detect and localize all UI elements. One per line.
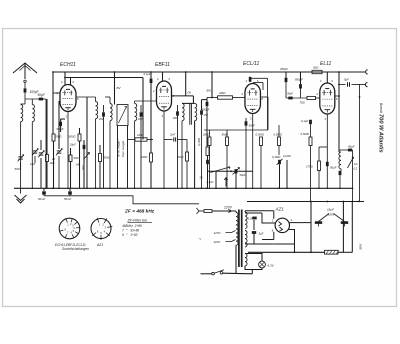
svg-text:0,5MΩ: 0,5MΩ	[274, 133, 283, 137]
svg-text:5kΩ: 5kΩ	[178, 155, 184, 159]
svg-text:450pF: 450pF	[280, 67, 288, 71]
svg-text:3MΩ: 3MΩ	[222, 133, 229, 137]
wire bias line	[245, 243, 274, 245]
wire B plus line	[247, 201, 364, 203]
svg-text:16µF: 16µF	[327, 208, 334, 212]
capacitor blob HT	[252, 217, 256, 220]
svg-text:50µF: 50µF	[330, 166, 337, 170]
wire B minus line	[44, 196, 199, 204]
capacitor 450pF	[285, 72, 287, 78]
svg-text:5µF: 5µF	[259, 232, 264, 236]
svg-text:150: 150	[204, 113, 209, 117]
antenna insulator	[24, 80, 26, 82]
svg-text:m. m. Regel –: m. m. Regel –	[117, 138, 121, 157]
svg-text:ECH11: ECH11	[60, 62, 76, 68]
coil L1 antenna	[21, 105, 23, 122]
capacitor 0,1uF AVC	[150, 72, 152, 79]
svg-text:7 ″ 93+86: 7 ″ 93+86	[122, 229, 139, 233]
capacitor 50pF coupling	[25, 98, 46, 100]
IF transformer 1 primary	[109, 97, 111, 104]
svg-text:220V: 220V	[223, 206, 233, 210]
wire screen feed EBF11	[185, 72, 187, 96]
wire ECH11 grid1	[53, 92, 60, 94]
wire mains top	[212, 210, 236, 212]
svg-text:0,2: 0,2	[354, 167, 358, 171]
page sheet	[3, 29, 397, 307]
capacitor OT bottom	[339, 171, 342, 175]
svg-text:50µF: 50µF	[240, 173, 247, 177]
wire anode vertical	[338, 72, 340, 152]
svg-text:0,5MΩ: 0,5MΩ	[301, 132, 310, 136]
svg-text:ECL/11: ECL/11	[243, 61, 260, 67]
wire psu verticals	[310, 202, 312, 253]
socket diagram AZ1	[91, 219, 111, 239]
coil L2 RF grid	[31, 99, 33, 105]
tube ECH11	[60, 85, 76, 112]
tube AZ1	[275, 218, 289, 232]
ground symbol	[20, 188, 22, 193]
capacitor 200pF IF1b	[140, 105, 142, 112]
svg-text:50Ω: 50Ω	[74, 156, 79, 160]
svg-text:1MΩ: 1MΩ	[137, 133, 144, 137]
wire IF1 feed drop	[114, 72, 116, 105]
pilot lamp	[259, 261, 266, 268]
svg-text:5kΩ: 5kΩ	[313, 66, 319, 70]
capacitor 200pF IF1a	[103, 105, 105, 112]
wire AZ1 filament	[245, 212, 262, 214]
svg-text:850pF: 850pF	[295, 78, 303, 82]
transformer primary	[235, 211, 237, 213]
resistor 1k input	[46, 155, 49, 162]
wire gang second	[58, 101, 60, 149]
wire ECH11 cathode	[67, 112, 69, 189]
svg-text:70Ω: 70Ω	[300, 101, 306, 105]
svg-text:25kΩ: 25kΩ	[54, 135, 61, 139]
svg-text:50mF: 50mF	[38, 197, 45, 201]
trimmer capacitor tone	[235, 169, 238, 173]
capacitor volume blob	[206, 160, 209, 164]
trimmer capacitor RF	[33, 150, 38, 152]
svg-text:0,1µF: 0,1µF	[144, 72, 151, 76]
wire ECH11 grid2	[59, 100, 60, 102]
tube ECL11 top cap	[249, 77, 252, 82]
wire switch	[201, 273, 212, 275]
ground bus	[14, 187, 353, 189]
wire AZ1 cathode out	[289, 222, 311, 224]
resistor 5k det	[186, 152, 189, 161]
wire wave trap	[45, 99, 47, 188]
tube EBF11	[157, 81, 172, 111]
svg-text:110V: 110V	[214, 240, 222, 244]
svg-text:50pF: 50pF	[38, 93, 46, 97]
wire antenna to coil	[24, 93, 26, 104]
svg-text:200: 200	[81, 165, 85, 171]
socket diagram triple	[59, 218, 80, 239]
svg-text:2MΩ: 2MΩ	[202, 133, 210, 137]
coil L3 oscillator	[95, 97, 97, 102]
svg-text:AZ1: AZ1	[275, 207, 285, 212]
capacitor 5uF bias	[253, 220, 255, 230]
wire AZ1 bottom left	[273, 232, 275, 240]
wire EBF11 cathode	[163, 111, 165, 188]
IF transformer 2 primary	[182, 104, 184, 121]
junction dots B plus	[310, 201, 312, 203]
switch mains	[212, 272, 215, 275]
wire ECL11 cathode	[252, 114, 254, 189]
output transformer primary	[339, 152, 341, 169]
tube ECL11	[245, 84, 261, 114]
resistor 70 grid stopper	[286, 97, 307, 99]
resistor 25k	[52, 134, 55, 141]
wire osc section line	[86, 97, 88, 188]
wire EL11 anode	[335, 95, 339, 97]
wire mains bottom vertical	[235, 245, 237, 273]
svg-text:1Ω: 1Ω	[354, 162, 357, 166]
IF transformer 2 secondary	[195, 104, 197, 121]
svg-text:Perl. Ausgel.: Perl. Ausgel.	[121, 140, 125, 157]
wire AVC line to grid	[52, 72, 54, 134]
capacitor 5uF phono	[339, 84, 346, 86]
resistor 1M AVC horizontal	[135, 138, 147, 141]
wire grid EBF11	[135, 100, 157, 102]
potentiometer hum	[348, 157, 354, 168]
wire EBF11 top pin	[162, 72, 164, 81]
junction dots	[31, 187, 33, 189]
wire EL11 cathode	[326, 114, 328, 188]
svg-text:380V: 380V	[359, 244, 363, 250]
capacitor 2nF det	[164, 139, 173, 141]
svg-text:40µF: 40µF	[348, 145, 355, 149]
svg-text:30pF: 30pF	[287, 92, 293, 96]
resistor 0,1M volume	[206, 147, 209, 156]
antenna	[13, 63, 37, 73]
svg-text:~: ~	[199, 237, 202, 242]
wire AZ1 anode feed	[245, 210, 274, 212]
IF transformer 1 core	[117, 105, 128, 126]
svg-text:2000Ω: 2000Ω	[67, 135, 76, 139]
capacitor 150pF IF2a	[177, 105, 179, 111]
wire screen drop ECL11	[211, 72, 213, 98]
wire phono top	[338, 71, 340, 73]
wire pot leg	[215, 171, 217, 188]
svg-text:10µF: 10µF	[70, 143, 77, 147]
svg-text:140: 140	[30, 162, 35, 166]
svg-text:0,5MΩ: 0,5MΩ	[256, 133, 265, 137]
trimmer padding	[84, 153, 90, 160]
capacitor bias blob	[83, 145, 86, 149]
field coil resistor	[325, 250, 339, 254]
svg-text:50mF: 50mF	[64, 197, 71, 201]
transformer heater winding	[245, 254, 247, 266]
transformer HT secondary	[244, 211, 246, 212]
svg-text:5µF: 5µF	[344, 78, 349, 82]
svg-text:ZF = 468 kHz: ZF = 468 kHz	[124, 208, 155, 214]
terminal phono 1	[366, 70, 368, 74]
capacitor 850pF	[300, 72, 302, 84]
svg-text:EL11: EL11	[320, 61, 332, 67]
svg-text:0,1MΩ: 0,1MΩ	[272, 155, 281, 159]
resistor 35k osc	[99, 154, 102, 162]
trimmer capacitor ant	[20, 135, 22, 155]
svg-text:150: 150	[173, 116, 178, 120]
wire feedback	[268, 124, 279, 126]
capacitor 150pF IF2b	[200, 110, 203, 114]
svg-text:125V: 125V	[214, 231, 222, 235]
svg-text:6 ″ 1+93: 6 ″ 1+93	[122, 233, 138, 237]
svg-text:300pF: 300pF	[202, 108, 210, 112]
svg-text:EBF11: EBF11	[155, 62, 170, 68]
svg-text:468kHz 2+86: 468kHz 2+86	[122, 224, 142, 228]
fuse	[204, 210, 212, 213]
svg-text:500: 500	[15, 167, 20, 171]
svg-text:1MΩ: 1MΩ	[141, 155, 148, 159]
tube EL11	[320, 83, 335, 114]
resistor 50 osc	[69, 155, 72, 162]
potentiometer volume	[210, 167, 230, 173]
transformer core	[238, 210, 240, 268]
svg-text:170Ω: 170Ω	[306, 165, 314, 169]
transformer bias secondary	[245, 231, 247, 247]
wire AZ1 return	[274, 230, 295, 245]
wire heater mid	[245, 225, 263, 227]
svg-text:2nF: 2nF	[169, 133, 175, 137]
svg-text:ZF-Filter bei: ZF-Filter bei	[127, 219, 148, 223]
wire ECH11 top pins	[64, 72, 66, 85]
resistor 5k screen	[312, 70, 322, 73]
svg-text:2,5kΩ: 2,5kΩ	[206, 180, 214, 184]
capacitor 50uF cathode	[326, 162, 329, 166]
wire phono junction	[338, 72, 340, 85]
svg-text:200: 200	[137, 117, 143, 121]
wire lamp return	[251, 270, 253, 274]
svg-text:AZ1: AZ1	[96, 243, 103, 247]
wire ECH11 anode	[76, 96, 96, 98]
svg-text:2MΩ: 2MΩ	[218, 91, 226, 95]
wire AF node line	[204, 129, 268, 131]
trimmer capacitor osc trim	[57, 150, 62, 152]
wire EBF11 anode	[172, 95, 194, 97]
svg-text:6M: 6M	[207, 89, 212, 93]
wire B bus top	[53, 71, 366, 73]
svg-text:Sockelschaltungen: Sockelschaltungen	[62, 247, 89, 251]
wire gang extra	[46, 99, 48, 155]
svg-text:200: 200	[98, 117, 104, 121]
wire ECL11 top link	[250, 77, 268, 79]
svg-text:140: 140	[76, 163, 81, 167]
arrow pot ground	[225, 178, 227, 187]
IF transformer 1 secondary	[134, 101, 136, 104]
capacitor 100pF antenna	[24, 88, 27, 92]
wire EL11 screen	[326, 72, 328, 83]
svg-text:Brandt: Brandt	[379, 103, 383, 114]
trimmer capacitor input	[40, 140, 42, 150]
terminal phono 2	[365, 83, 367, 87]
svg-text:6,3V: 6,3V	[268, 264, 275, 268]
wire antenna down	[24, 83, 26, 88]
resistor 2M AF grid	[207, 97, 218, 99]
wire AVC drop	[142, 78, 144, 140]
resistor 1M AVC vertical	[150, 153, 153, 162]
wire det to volume	[194, 145, 196, 188]
svg-text:0,1MΩ: 0,1MΩ	[283, 154, 291, 158]
wire speaker line	[352, 150, 354, 202]
wire cathode branch	[319, 146, 327, 148]
wire field coil	[248, 251, 325, 253]
capacitor 300pF AF	[206, 98, 208, 103]
IF transformer 2 core	[189, 104, 191, 125]
mains plug	[197, 208, 200, 214]
svg-text:0,1MΩ: 0,1MΩ	[197, 138, 201, 146]
capacitor 30pF coupling	[288, 97, 292, 100]
wire ECL11 anode	[261, 96, 269, 98]
capacitor 50mF b	[69, 188, 71, 191]
svg-text:DK: DK	[188, 91, 192, 95]
wire IF2 tops	[182, 102, 195, 104]
wire AVC bus	[65, 77, 143, 79]
capacitor 50nF ECL	[245, 118, 247, 122]
capacitor 50mF cathode	[59, 122, 62, 126]
wire detector out	[202, 99, 208, 101]
wire volume out	[208, 170, 254, 172]
capacitor 50mF a	[43, 188, 45, 191]
svg-text:0,1µF: 0,1µF	[301, 119, 308, 123]
svg-text:700 W Atlantis: 700 W Atlantis	[378, 114, 384, 153]
svg-text:50nF: 50nF	[249, 124, 256, 128]
